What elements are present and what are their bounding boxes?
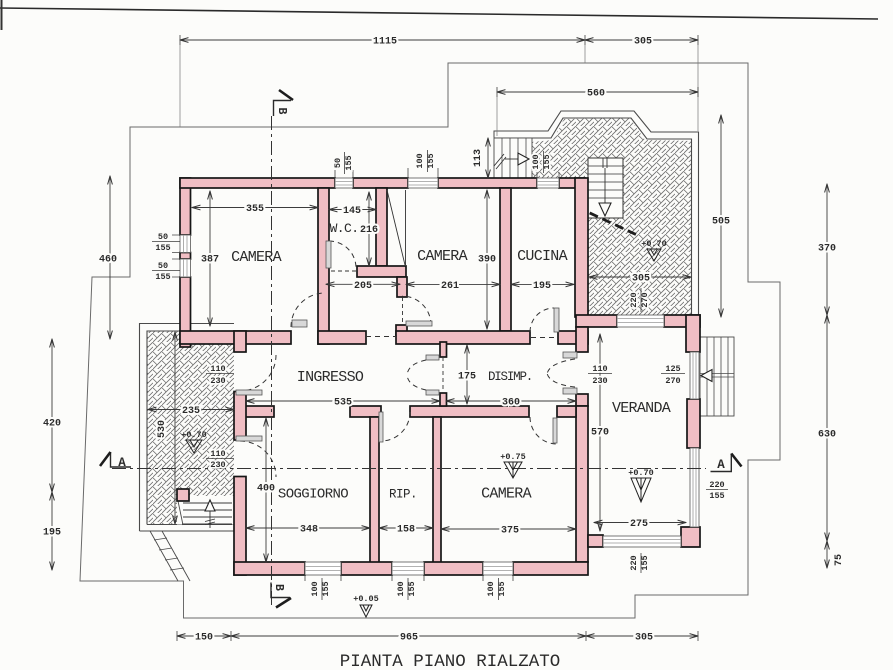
exterior stair top-left: [494, 138, 532, 178]
svg-text:100: 100: [310, 581, 320, 596]
door rip arc: [381, 412, 410, 441]
svg-text:155: 155: [155, 243, 170, 253]
wall corridor bottom seg3: [410, 406, 529, 417]
svg-text:230: 230: [592, 376, 607, 386]
left terrace stair side: [178, 501, 183, 525]
dim 560: [497, 91, 698, 93]
svg-text:125: 125: [665, 364, 680, 374]
marker A left: [111, 452, 132, 467]
property boundary stepped outline: [80, 63, 780, 618]
svg-text:CAMERA: CAMERA: [481, 486, 532, 503]
dim 355: [192, 207, 318, 209]
door terrace-soggiorno arc: [240, 441, 276, 477]
svg-text:50: 50: [158, 261, 168, 271]
svg-text:DISIMP.: DISIMP.: [488, 370, 532, 384]
svg-text:535: 535: [334, 398, 352, 409]
left terrace parapet outer: [140, 324, 235, 532]
svg-text:348: 348: [300, 525, 318, 536]
dim left 420/195: [51, 339, 53, 492]
exterior stair right of veranda: [700, 337, 734, 416]
dim top 1115/305: [180, 39, 585, 41]
dim 205: [326, 283, 400, 285]
left terrace stair treads: [182, 503, 232, 524]
dim right 370/630/75: [826, 184, 828, 315]
sill ticks bottom windows: [305, 575, 513, 581]
top terrace hatch: [532, 118, 691, 315]
svg-text:216: 216: [360, 225, 378, 236]
wall ingresso left mid: [234, 392, 246, 441]
svg-text:305: 305: [634, 37, 652, 48]
dim 195 cucina: [511, 283, 574, 285]
wall wc bottom: [357, 266, 406, 277]
wall corridor bottom seg1: [244, 406, 274, 417]
left terrace parapet inner: [147, 331, 234, 525]
marker B bottom: [271, 583, 290, 598]
double door ingresso-disimp: [426, 355, 439, 360]
svg-text:270: 270: [640, 292, 650, 307]
window top wall 100-155 cucina: [537, 178, 559, 188]
svg-text:220: 220: [709, 480, 724, 490]
svg-text:155: 155: [709, 491, 724, 501]
extension ticks top windows: [335, 168, 559, 178]
wall bottom seg3: [424, 562, 483, 575]
wall soggiorno left lower: [234, 477, 246, 576]
marker B top: [274, 101, 292, 117]
svg-text:220: 220: [629, 555, 639, 570]
wall corridor bottom seg4: [557, 406, 576, 417]
dim 235: [148, 409, 234, 411]
dim 375: [441, 528, 576, 530]
section line B-B: [271, 116, 273, 608]
svg-text:355: 355: [246, 204, 264, 215]
dim 261: [406, 283, 500, 285]
svg-text:75: 75: [834, 554, 845, 566]
wall top seg3: [438, 178, 537, 188]
wall left exterior lower: [180, 277, 191, 347]
svg-text:270: 270: [665, 376, 680, 386]
svg-text:110: 110: [210, 449, 225, 459]
svg-text:155: 155: [344, 155, 354, 170]
wall soggiorno-rip: [370, 417, 379, 563]
svg-text:INGRESSO: INGRESSO: [297, 369, 364, 386]
top terrace parapet outer: [494, 111, 699, 315]
window top wall 100-155 camera2: [408, 178, 438, 188]
veranda right corner top: [686, 315, 700, 352]
svg-text:195: 195: [533, 281, 551, 292]
dim 113: [487, 138, 489, 178]
dim 305 terrace: [589, 276, 691, 278]
opening dashed wc corridor: [366, 336, 396, 338]
paper edge left: [1, 0, 3, 30]
section line A-A: [112, 468, 706, 470]
wall terrace bottom right seg: [664, 315, 700, 327]
svg-text:CAMERA: CAMERA: [231, 249, 282, 266]
svg-text:220: 220: [629, 292, 639, 307]
stub ingresso-disimp upper: [440, 342, 447, 357]
dim 275: [594, 522, 686, 524]
wall camera2-cucina: [500, 188, 511, 331]
svg-text:+0.70: +0.70: [181, 430, 207, 440]
svg-text:630: 630: [818, 430, 836, 441]
svg-text:110: 110: [592, 364, 607, 374]
wall bottom seg2: [341, 562, 392, 575]
door camera1 arc: [291, 293, 325, 327]
door terrace-ingresso arc: [240, 355, 276, 391]
dim 175: [466, 345, 468, 404]
svg-text:113: 113: [473, 149, 484, 167]
svg-text:B: B: [272, 584, 285, 591]
svg-text:+0.05: +0.05: [353, 594, 379, 604]
dim left 460: [109, 176, 111, 339]
svg-text:110: 110: [210, 364, 225, 374]
svg-text:261: 261: [441, 281, 459, 292]
wall corridor bottom seg2: [350, 406, 381, 417]
svg-text:175: 175: [458, 372, 476, 383]
wall ingresso left upper: [234, 331, 246, 352]
svg-text:375: 375: [501, 526, 519, 537]
svg-text:145: 145: [343, 206, 361, 217]
wall niche stub: [397, 277, 407, 297]
veranda bottom corner right: [681, 527, 700, 547]
svg-text:230: 230: [210, 376, 225, 386]
wall bottom seg4: [513, 562, 588, 575]
window left wall upper 50: [180, 235, 191, 253]
svg-text:155: 155: [640, 555, 650, 570]
svg-text:+0.70: +0.70: [628, 468, 654, 478]
svg-text:420: 420: [43, 419, 61, 430]
svg-text:50: 50: [333, 158, 343, 168]
scan line top edge: [0, 8, 878, 19]
svg-text:A: A: [717, 458, 725, 472]
wall mid center: [396, 331, 530, 344]
dim bottom 150/965/305: [177, 635, 231, 637]
stub ingresso-disimp lower: [440, 393, 447, 406]
veranda right glazing upper: [690, 352, 699, 399]
svg-text:460: 460: [99, 255, 117, 266]
door disimp-camera3 arc: [530, 417, 557, 444]
wall top seg4: [559, 178, 585, 188]
left terrace parapet bottom: [140, 525, 235, 532]
wall left exterior upper: [180, 178, 191, 235]
svg-text:505: 505: [712, 217, 730, 228]
window bottom soggiorno: [305, 562, 341, 575]
dim 216: [368, 192, 370, 266]
svg-text:50: 50: [158, 232, 168, 242]
wall mid left: [180, 331, 291, 344]
exterior stair to garden SW: [150, 531, 190, 581]
fraction bars: [345, 150, 544, 174]
wall left exterior spacer: [180, 253, 191, 260]
svg-text:100: 100: [531, 154, 541, 169]
svg-text:100: 100: [396, 581, 406, 596]
svg-text:RIP.: RIP.: [389, 488, 417, 502]
wall rip-camera3: [433, 417, 441, 563]
dim 158: [379, 527, 433, 529]
svg-text:SOGGIORNO: SOGGIORNO: [278, 487, 348, 503]
marker A right: [711, 454, 732, 472]
veranda bottom corner left: [588, 535, 603, 547]
wall mid at wc corridor: [318, 331, 366, 344]
svg-text:530: 530: [157, 420, 168, 438]
dim 505: [720, 115, 722, 317]
veranda bottom glazing: [603, 536, 681, 547]
terrace pillar: [177, 489, 189, 501]
left terrace stair arrow: [205, 500, 215, 511]
svg-text:155: 155: [407, 581, 417, 596]
veranda right pier: [687, 399, 700, 448]
svg-text:370: 370: [818, 244, 836, 255]
double door disimp-veranda: [563, 352, 577, 358]
dim 387: [209, 191, 211, 326]
dim 348: [246, 527, 370, 529]
svg-text:CUCINA: CUCINA: [517, 248, 568, 265]
window bottom camera3: [483, 562, 513, 575]
dim 360: [446, 400, 576, 402]
left terrace stair landing: [177, 496, 234, 525]
dim 570: [599, 334, 601, 531]
svg-text:390: 390: [478, 255, 496, 266]
svg-text:PIANTA PIANO RIALZATO: PIANTA PIANO RIALZATO: [340, 652, 561, 670]
svg-text:CAMERA: CAMERA: [417, 248, 468, 265]
interior stair of top terrace: [588, 158, 623, 218]
svg-text:400: 400: [257, 484, 275, 495]
veranda right glazing lower: [690, 448, 699, 527]
top terrace parapet left cap: [493, 131, 495, 138]
svg-text:305: 305: [632, 274, 650, 285]
svg-text:560: 560: [587, 89, 605, 100]
svg-text:387: 387: [201, 255, 219, 266]
svg-text:A: A: [118, 456, 126, 470]
wall mid jog: [396, 325, 407, 335]
svg-text:360: 360: [502, 398, 520, 409]
svg-text:155: 155: [321, 581, 331, 596]
svg-text:965: 965: [400, 633, 418, 644]
svg-text:100: 100: [486, 581, 496, 596]
window bottom rip: [392, 562, 424, 575]
svg-text:275: 275: [630, 519, 648, 530]
dim 535: [246, 400, 440, 402]
svg-text:230: 230: [210, 460, 225, 470]
wall top seg1: [180, 178, 335, 188]
door camera2 arc: [402, 296, 431, 325]
wall terrace bottom left seg: [576, 315, 617, 327]
wall wc right: [376, 188, 387, 266]
svg-text:158: 158: [397, 525, 415, 536]
wall veranda left upper: [576, 327, 588, 352]
door cucina arc: [530, 308, 554, 332]
window left wall lower 50: [180, 259, 191, 277]
wall veranda-camera3: [576, 406, 588, 562]
svg-text:195: 195: [43, 528, 61, 539]
window top wall 50-155: [335, 178, 353, 188]
svg-text:205: 205: [354, 281, 372, 292]
svg-text:570: 570: [591, 428, 609, 439]
left terrace hatch: [147, 331, 234, 525]
svg-text:155: 155: [155, 272, 170, 282]
dim 400: [265, 418, 267, 562]
window veranda top wall: [617, 315, 664, 327]
wall top seg2: [353, 178, 408, 188]
wall veranda left mid: [576, 394, 588, 406]
svg-text:VERANDA: VERANDA: [612, 400, 671, 417]
svg-text:B: B: [275, 108, 288, 115]
svg-text:W.C.: W.C.: [330, 221, 359, 236]
dim 145: [329, 209, 376, 211]
wall camera1-wc: [318, 188, 329, 344]
svg-text:305: 305: [635, 633, 653, 644]
wall mid right: [558, 331, 588, 344]
dim 390: [486, 190, 488, 329]
svg-text:150: 150: [195, 633, 213, 644]
door wc arc: [329, 241, 356, 268]
wall bottom seg1: [234, 562, 305, 575]
svg-text:+0.75: +0.75: [500, 452, 526, 462]
svg-text:+0.70: +0.70: [641, 239, 667, 249]
top terrace parapet inner: [494, 118, 692, 315]
bold dashed roof line over terrace: [577, 207, 637, 235]
svg-text:100: 100: [415, 153, 425, 168]
wall cucina right: [575, 178, 588, 317]
svg-text:235: 235: [182, 406, 200, 417]
extension ticks left windows: [172, 235, 180, 277]
svg-text:1115: 1115: [373, 37, 397, 48]
niche diagonal camera2: [387, 190, 406, 265]
dim 530: [174, 332, 176, 524]
